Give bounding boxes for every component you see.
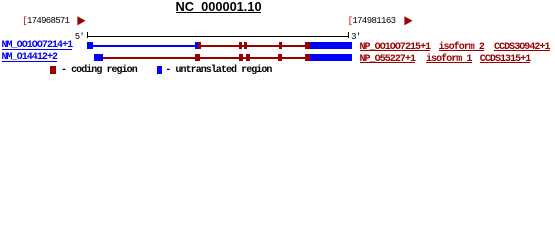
- t2 label underline: [2, 61, 58, 62]
- t1 CCDS30942.1 link: [494, 43, 550, 53]
- t1 isoform 2 link: [439, 43, 484, 53]
- t1 exon 2 UTR part (blue): [195, 42, 198, 49]
- t1 exon 6 coding part (maroon): [305, 42, 310, 49]
- t2 CCDS1315.1 link: [480, 55, 531, 65]
- axis right tick: [348, 32, 349, 38]
- title underline: [176, 12, 262, 13]
- t1 protein link NP_001007215.1: [360, 43, 431, 53]
- t2 exon 4: [246, 54, 250, 61]
- t2 exon 3: [239, 54, 243, 61]
- t1 intron 5: [282, 45, 306, 47]
- t2 intron 4: [250, 57, 279, 59]
- transcript 2 label NM_014412.2: [2, 53, 58, 63]
- t1 intron 4: [247, 45, 279, 47]
- t2 exon 2: [195, 54, 201, 61]
- t2 intron 2: [200, 57, 239, 59]
- t2 intron 1 (maroon line): [103, 57, 195, 59]
- t2 exon 6 coding part (maroon): [305, 54, 310, 61]
- t1 intron 3: [242, 45, 244, 47]
- right coordinate label [174981163: [348, 17, 396, 26]
- t1 intron 2 (maroon line): [201, 45, 238, 47]
- legend untranslated text: [165, 66, 271, 76]
- t2 isoform 1 link: [426, 55, 471, 65]
- t2 intron 3: [243, 57, 246, 59]
- t1 exon 2 coding part (maroon): [198, 42, 201, 49]
- t2 5'UTR exon 1 (blue box): [94, 54, 103, 61]
- t2 exon 5: [278, 54, 282, 61]
- left strand arrow: [77, 16, 87, 27]
- legend coding swatch: [50, 66, 55, 74]
- t1 exon 4: [244, 42, 247, 49]
- transcript 1 label NM_001007214.1: [2, 41, 73, 51]
- t1 5'UTR exon 1 (blue box): [87, 42, 94, 49]
- t1 intron 1 (blue line): [93, 45, 195, 47]
- t2 exon 6 3'UTR (blue box): [310, 54, 352, 61]
- t2 intron 5: [282, 57, 305, 59]
- title NC_000001.10: [176, 1, 262, 14]
- t1 exon 6 3'UTR (blue box): [310, 42, 352, 49]
- t1 label underline: [2, 49, 73, 50]
- legend coding text: [61, 66, 137, 76]
- 3' label: [351, 33, 360, 42]
- right strand arrow: [404, 16, 414, 27]
- axis line: [87, 36, 349, 37]
- left coordinate label [174968571: [22, 17, 69, 26]
- t1 exon 3: [239, 42, 242, 49]
- t1 exon 5: [279, 42, 282, 49]
- t2 protein link NP_055227.1: [360, 55, 416, 65]
- legend untranslated swatch: [157, 66, 162, 74]
- 5' label: [75, 33, 84, 42]
- axis left tick: [87, 32, 88, 38]
